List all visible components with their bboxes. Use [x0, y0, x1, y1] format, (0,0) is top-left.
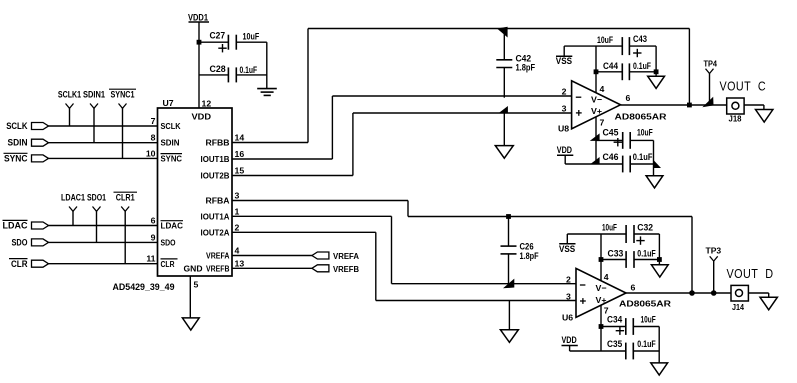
- capacitor C42 1.8pF: [496, 29, 535, 98]
- svg-text:CLR: CLR: [161, 259, 176, 269]
- junction arrow C26/IOUT1A: [503, 279, 514, 289]
- junction U6 pin7/C34: [599, 324, 604, 329]
- capacitor C45 10uF: [596, 127, 654, 149]
- svg-text:1.8pF: 1.8pF: [520, 251, 539, 262]
- wire U8 output to J18: [621, 104, 727, 106]
- power symbol VDD1: [188, 13, 209, 43]
- svg-text:V−: V−: [591, 95, 602, 105]
- junction RFBA/C26: [506, 214, 511, 219]
- svg-text:C32: C32: [637, 222, 653, 233]
- svg-text:10uF: 10uF: [597, 35, 613, 46]
- svg-text:VREFA: VREFA: [333, 251, 360, 261]
- wire SDO to U7 pin 9: [49, 241, 158, 243]
- net stub SDIN1: [83, 90, 106, 143]
- net stub SCLK1: [58, 90, 82, 127]
- wire IOUT2B net: U7 pin 15 to U8 non-inverting input: [232, 113, 572, 176]
- svg-text:6: 6: [626, 93, 631, 103]
- svg-text:IOUT1B: IOUT1B: [201, 154, 230, 164]
- capacitor C33 0.1uF: [601, 248, 659, 268]
- net stub CLR1 (active low): [114, 192, 138, 264]
- capacitor C35 0.1uF: [601, 339, 659, 359]
- svg-text:TP4: TP4: [704, 58, 718, 68]
- svg-text:V−: V−: [596, 283, 607, 293]
- svg-text:VSS: VSS: [559, 244, 575, 255]
- junction feedback/output D: [689, 290, 695, 296]
- wire U6 output to J14: [626, 292, 731, 294]
- svg-text:C27: C27: [210, 31, 226, 42]
- ground under U6 input stub: [500, 330, 518, 343]
- svg-text:10: 10: [146, 148, 156, 158]
- junction C44/ground: [654, 69, 659, 74]
- svg-text:U6: U6: [562, 313, 573, 323]
- svg-text:VOUT C: VOUT C: [720, 79, 767, 93]
- svg-text:VREFB: VREFB: [333, 264, 359, 274]
- svg-text:1: 1: [235, 206, 240, 216]
- ground at J18: [756, 110, 773, 123]
- svg-text:AD5429_39_49: AD5429_39_49: [113, 282, 175, 293]
- svg-text:VREFA: VREFA: [206, 251, 230, 261]
- svg-text:LDAC1: LDAC1: [61, 193, 86, 204]
- junction arrow on IOUT2B at ground stub: [498, 106, 508, 114]
- svg-text:LDAC: LDAC: [161, 221, 184, 231]
- wire IOUT2A ground stub D: [508, 301, 510, 330]
- wire U6 pin 4 to VSS rail: [600, 234, 602, 281]
- junction TP3/output: [711, 290, 717, 296]
- svg-text:2: 2: [566, 275, 571, 285]
- connector SDIN: [8, 138, 49, 149]
- svg-text:SCLK1: SCLK1: [58, 90, 82, 101]
- svg-text:16: 16: [235, 149, 245, 159]
- wire IOUT2A net: U7 pin 2 to U6 non-inverting input: [232, 232, 576, 300]
- wire J14 to ground: [748, 293, 768, 297]
- wire RFBA net: U7 pin 3 across to output D: [232, 201, 692, 294]
- ground under U7 pin 5: [182, 318, 199, 330]
- svg-text:VDD: VDD: [557, 145, 572, 156]
- svg-text:C43: C43: [633, 34, 647, 45]
- svg-text:SDIN1: SDIN1: [83, 90, 106, 101]
- connector SDO: [12, 238, 49, 249]
- junction VDD1/C27: [197, 40, 202, 45]
- svg-text:10uF: 10uF: [602, 223, 617, 234]
- svg-text:VSS: VSS: [556, 56, 572, 67]
- wire VSS rail to caps: [564, 45, 622, 47]
- wire U8 pin 7 to VDD rail: [595, 117, 597, 164]
- wire IOUT2B ground stub: [503, 113, 505, 146]
- wire VREFB to U7 pin 13: [232, 267, 312, 269]
- svg-text:5: 5: [194, 280, 199, 290]
- svg-text:SDIN: SDIN: [8, 138, 28, 149]
- wire VREFA to U7 pin 4: [232, 255, 312, 257]
- capacitor C46 0.1uF: [596, 152, 654, 172]
- svg-text:SCLK: SCLK: [6, 121, 27, 132]
- svg-text:C46: C46: [603, 152, 619, 163]
- svg-text:C34: C34: [607, 315, 623, 326]
- svg-text:SYNC: SYNC: [161, 154, 183, 164]
- svg-text:J14: J14: [732, 302, 744, 312]
- wire C45/C46 right to ground: [653, 140, 655, 175]
- wire C34/C35 right to ground: [658, 327, 660, 363]
- connector J18: [727, 98, 744, 124]
- svg-text:11: 11: [146, 254, 155, 264]
- svg-text:RFBB: RFBB: [206, 138, 230, 148]
- svg-text:6: 6: [631, 283, 636, 293]
- svg-text:2: 2: [235, 222, 240, 232]
- junction U6 pin4/C33: [599, 257, 604, 262]
- svg-text:SDO: SDO: [161, 238, 176, 248]
- wire VSS rail to caps D: [567, 233, 626, 235]
- connector J14: [731, 285, 748, 312]
- wire RFBB net: U7 pin 14 up and across to output: [232, 29, 689, 143]
- svg-text:13: 13: [235, 259, 245, 269]
- connector VREFA: [312, 251, 360, 261]
- U7 pin 5 GND stub: [189, 276, 191, 318]
- svg-text:U8: U8: [558, 123, 569, 133]
- svg-text:7: 7: [151, 116, 156, 126]
- svg-text:V+: V+: [591, 106, 602, 116]
- svg-text:3: 3: [562, 104, 567, 114]
- IC U7 AD5429_39_49: [158, 98, 233, 276]
- svg-text:9: 9: [151, 232, 156, 242]
- pin numbers U7: [146, 116, 245, 290]
- wire C27/C28 right to ground: [266, 42, 268, 88]
- wire VDD to U8 pin 7: [565, 163, 596, 165]
- svg-text:SDO: SDO: [12, 238, 28, 249]
- svg-text:10uF: 10uF: [243, 32, 260, 43]
- ground under C35: [651, 363, 668, 375]
- junction feedback/output C: [687, 103, 692, 108]
- wire J18 to ground: [744, 105, 764, 110]
- connector VREFB: [312, 264, 359, 274]
- power symbol VDD (channel D): [562, 335, 578, 351]
- wire LDAC to U7 pin 6: [49, 225, 158, 227]
- svg-text:VDD: VDD: [192, 112, 212, 122]
- svg-text:10uF: 10uF: [637, 127, 653, 138]
- power symbol VSS (channel C): [556, 46, 573, 67]
- power symbol VSS (channel D): [559, 234, 576, 255]
- ground under U8 input stub: [495, 146, 513, 159]
- svg-text:15: 15: [235, 166, 245, 176]
- op-amp U8 AD8065AR: [558, 81, 667, 134]
- connector SYNC (active low): [4, 153, 49, 164]
- connector SCLK: [6, 121, 48, 132]
- svg-text:IOUT2A: IOUT2A: [201, 228, 231, 238]
- svg-text:SYNC: SYNC: [4, 154, 28, 165]
- svg-text:VOUT D: VOUT D: [727, 267, 774, 281]
- svg-text:SDIN: SDIN: [161, 138, 180, 148]
- svg-text:IOUT1A: IOUT1A: [201, 212, 231, 222]
- svg-text:12: 12: [202, 99, 212, 109]
- svg-text:TP3: TP3: [706, 246, 722, 256]
- svg-text:0.1uF: 0.1uF: [240, 65, 258, 76]
- svg-text:C28: C28: [210, 64, 226, 75]
- svg-text:GND: GND: [184, 264, 203, 274]
- ground under C33: [651, 265, 668, 277]
- wire U6 pin 7 to VDD rail: [600, 306, 602, 352]
- svg-text:0.1uF: 0.1uF: [633, 152, 653, 163]
- svg-text:VDD: VDD: [562, 335, 577, 346]
- svg-text:AD8065AR: AD8065AR: [615, 111, 668, 121]
- junction C33/ground: [657, 257, 662, 262]
- svg-text:0.1uF: 0.1uF: [637, 248, 656, 259]
- wire C43/C44 right to ground: [655, 46, 657, 76]
- svg-text:C44: C44: [603, 61, 619, 72]
- svg-text:C33: C33: [608, 248, 624, 259]
- svg-text:SCLK: SCLK: [161, 121, 182, 131]
- svg-text:4: 4: [600, 84, 605, 94]
- wire SYNC to U7 pin 10: [49, 157, 158, 159]
- svg-text:C35: C35: [607, 339, 623, 350]
- connector CLR (active low): [9, 259, 49, 270]
- net stub SYNC1 (active low): [109, 89, 136, 158]
- svg-text:CLR: CLR: [11, 259, 28, 270]
- wire SDIN to U7 pin 8: [49, 142, 158, 144]
- svg-text:VREFB: VREFB: [206, 264, 230, 274]
- net stub SDO1: [87, 193, 107, 243]
- svg-text:10uF: 10uF: [641, 315, 656, 326]
- svg-text:V+: V+: [596, 295, 607, 305]
- test point TP4: [704, 58, 718, 105]
- ground under C44: [648, 76, 665, 88]
- wire VDD1 stem to U7 pin 12: [198, 42, 200, 108]
- svg-text:0.1uF: 0.1uF: [637, 339, 656, 350]
- svg-text:CLR1: CLR1: [116, 193, 136, 204]
- svg-text:U7: U7: [163, 98, 174, 108]
- svg-text:C45: C45: [603, 127, 620, 138]
- capacitor C34 10uF: [601, 315, 659, 335]
- svg-text:1.8pF: 1.8pF: [516, 63, 536, 74]
- power symbol VDD (channel C): [557, 145, 574, 164]
- junction arrow C42 top on RFBB rail: [497, 27, 508, 38]
- capacitor C27 10uF: [199, 31, 267, 53]
- svg-text:0.1uF: 0.1uF: [633, 61, 651, 72]
- connector LDAC (active low): [3, 220, 49, 231]
- svg-text:7: 7: [600, 118, 605, 128]
- svg-text:6: 6: [151, 216, 156, 226]
- junction arrow U8 pin7/C45: [590, 133, 600, 141]
- svg-text:4: 4: [604, 272, 609, 282]
- svg-text:AD8065AR: AD8065AR: [619, 299, 672, 309]
- svg-text:IOUT2B: IOUT2B: [201, 171, 230, 181]
- wire CLR to U7 pin 11: [49, 263, 158, 265]
- svg-text:J18: J18: [729, 114, 742, 124]
- svg-text:8: 8: [151, 133, 156, 143]
- svg-text:3: 3: [566, 292, 571, 302]
- svg-text:3: 3: [235, 191, 240, 201]
- capacitor C28 0.1uF: [199, 64, 267, 82]
- earth ground under C28: [257, 89, 277, 96]
- ground under C46: [646, 176, 663, 188]
- test point TP3: [706, 246, 722, 293]
- op-amp U6 AD8065AR: [562, 268, 672, 322]
- junction U8 pin4/C44: [594, 69, 599, 74]
- svg-text:14: 14: [235, 133, 245, 143]
- capacitor C44 0.1uF: [596, 61, 656, 80]
- wire IOUT1A net: U7 pin 1 to U6 inverting input: [232, 216, 576, 283]
- wire U8 pin 4 to VSS rail: [595, 46, 597, 93]
- svg-text:4: 4: [235, 246, 240, 256]
- junction arrow TP4/output: [702, 97, 713, 108]
- junction arrow C46/ground: [653, 160, 661, 169]
- wire C32/C33 right to ground: [658, 234, 660, 265]
- junction arrow VDD/C46: [590, 157, 600, 165]
- wire IOUT1B net: U7 pin 16 to U8 inverting input: [232, 96, 572, 159]
- svg-text:RFBA: RFBA: [206, 196, 231, 206]
- svg-text:LDAC: LDAC: [3, 221, 28, 232]
- wire VDD to U6 pin 7: [570, 350, 601, 352]
- net stub LDAC1: [61, 193, 86, 226]
- capacitor C26 1.8pF: [501, 217, 539, 286]
- ground at J14: [760, 297, 777, 310]
- wire SCLK to U7 pin 7: [49, 125, 158, 127]
- svg-text:2: 2: [562, 87, 567, 97]
- capacitor C43 10uF: [597, 34, 656, 57]
- svg-text:SYNC1: SYNC1: [111, 90, 136, 101]
- capacitor C32 10uF: [602, 222, 659, 245]
- svg-text:SDO1: SDO1: [87, 193, 107, 204]
